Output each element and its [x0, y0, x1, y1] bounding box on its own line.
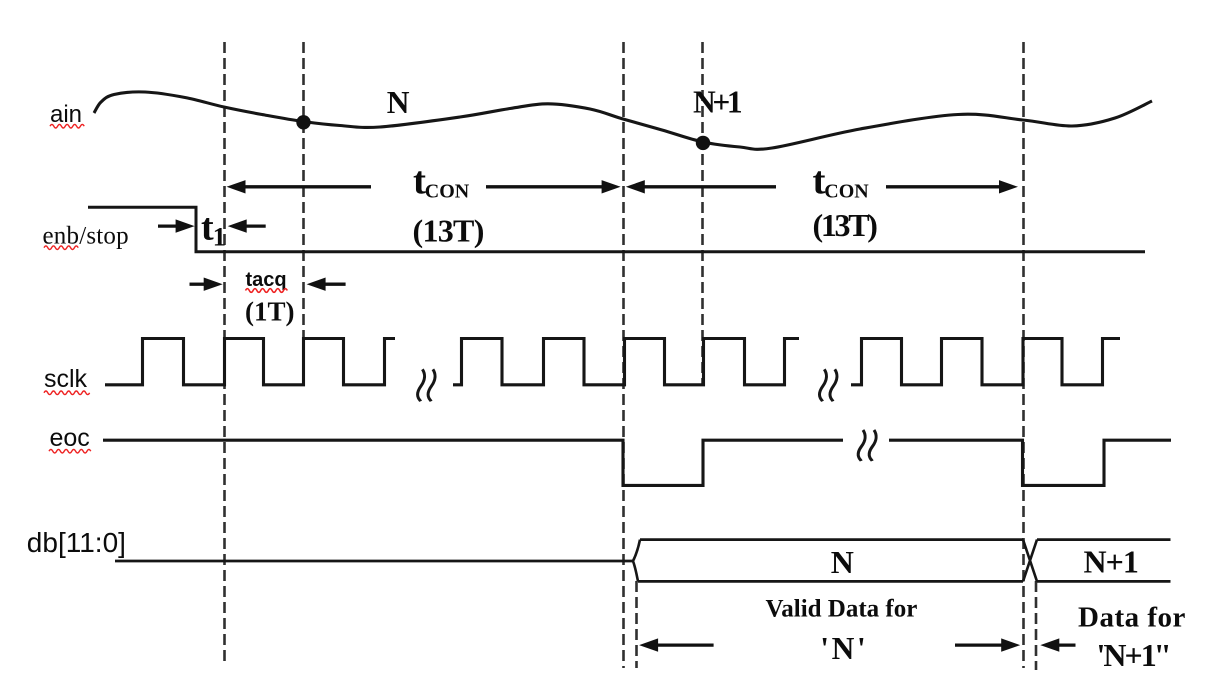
db bus data N+1 top line [1037, 538, 1171, 541]
svg-text:enb/stop: enb/stop [43, 223, 129, 250]
red spell squiggle under ain [50, 124, 84, 128]
t1 arrow pointing left [228, 219, 247, 232]
svg-text:N+1: N+1 [693, 85, 742, 120]
enb/stop waveform [88, 207, 1145, 252]
dashed timing line D2 (end of tacq) [302, 42, 305, 384]
db bus data N top line [640, 538, 1023, 541]
svg-text:sclk: sclk [44, 365, 88, 393]
data N+1 arrow pointing left [1040, 638, 1059, 651]
tCON span 2 arrow left [626, 180, 645, 193]
red spell squiggle under tacq [246, 289, 288, 293]
svg-text:db[11:0]: db[11:0] [27, 527, 126, 558]
svg-text:ain: ain [50, 101, 82, 128]
svg-text:N+1: N+1 [1084, 544, 1138, 580]
svg-text:CON: CON [425, 180, 470, 202]
svg-text:(13T): (13T) [413, 213, 484, 249]
sclk break symbol 2 [819, 369, 826, 401]
sclk waveform segment 1 [105, 339, 395, 385]
svg-text:1: 1 [213, 221, 226, 251]
eoc waveform segment 1 [103, 440, 843, 485]
sample dot N+1 on ain [696, 136, 710, 150]
eoc waveform segment 2 [889, 440, 1171, 485]
tacq arrow pointing left [307, 278, 326, 291]
valid data span arrow right [1001, 638, 1020, 651]
svg-text:(1T): (1T) [245, 296, 295, 326]
db bus fork at data N [633, 540, 640, 582]
tacq arrow pointing right [204, 278, 223, 291]
red spell squiggle under eoc [49, 449, 91, 453]
red spell squiggle under enb [44, 246, 78, 250]
db bus data N+1 bottom line [1037, 580, 1171, 583]
db[11:0] bus idle line [115, 560, 633, 563]
eoc break symbol [858, 430, 865, 461]
svg-text:tacq: tacq [246, 269, 287, 291]
svg-text:eoc: eoc [50, 424, 90, 452]
svg-text:N: N [387, 85, 410, 120]
svg-text:N: N [831, 544, 854, 580]
sample dot N on ain [296, 115, 310, 129]
db bus crossover X [1023, 540, 1037, 582]
red spell squiggle under sclk [44, 391, 90, 395]
svg-text:(13T): (13T) [813, 207, 878, 243]
sclk break symbol 1 [418, 369, 425, 401]
tCON span 2 arrow right [999, 180, 1018, 193]
dashed timing line D4 (sample instant 2) [701, 42, 704, 384]
sclk waveform segment 3 [851, 339, 1120, 385]
dashed timing line D1 (sample instant 1) [223, 42, 226, 666]
svg-text:CON: CON [824, 180, 869, 202]
sclk waveform segment 2 [453, 339, 799, 385]
svg-text:Data for: Data for [1078, 602, 1186, 634]
svg-text:Valid Data for: Valid Data for [766, 595, 918, 622]
dashed timing line D5b (data N+1 valid start) [1035, 581, 1038, 670]
tCON span 1 arrow right [602, 180, 621, 193]
t1 arrow pointing right [176, 219, 195, 232]
svg-text:'N+1'': 'N+1'' [1097, 637, 1169, 673]
valid data span arrow left [639, 638, 658, 651]
analog input waveform ain [94, 92, 1152, 149]
dashed timing line D5 (end of second conversion) [1022, 42, 1025, 668]
db bus data N bottom line [638, 580, 1023, 583]
dashed timing line D3b (data N valid start) [635, 581, 638, 668]
dashed timing line D3 (end of first conversion) [622, 42, 625, 668]
svg-text:'N': 'N' [820, 631, 868, 666]
tCON span 1 arrow left [158, 180, 1076, 652]
